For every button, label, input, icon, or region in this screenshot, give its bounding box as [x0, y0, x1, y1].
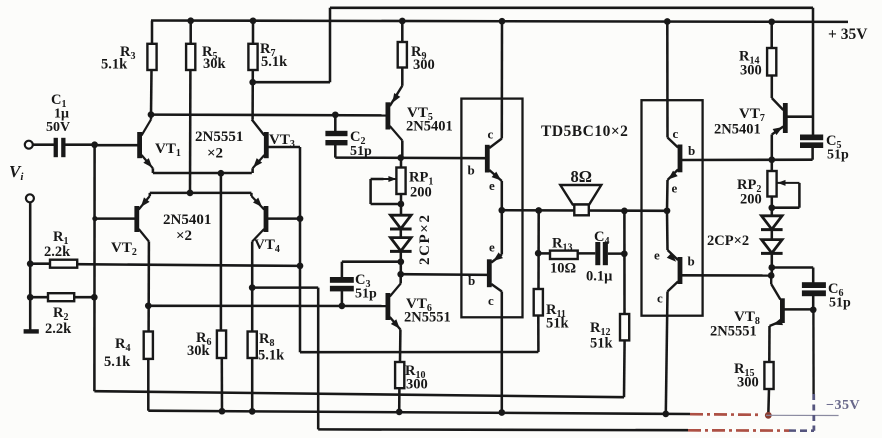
svg-text:51p: 51p	[829, 296, 851, 311]
svg-text:b: b	[688, 254, 695, 269]
svg-text:2.2k: 2.2k	[45, 321, 72, 337]
svg-text:2CP×2: 2CP×2	[707, 233, 749, 249]
svg-text:10Ω: 10Ω	[550, 261, 576, 277]
svg-text:TD5BC10×2: TD5BC10×2	[541, 123, 628, 140]
svg-text:2N5401: 2N5401	[163, 212, 211, 228]
svg-text:c: c	[673, 126, 679, 141]
svg-text:0.1μ: 0.1μ	[586, 269, 613, 285]
svg-text:300: 300	[740, 63, 762, 79]
svg-text:51k: 51k	[590, 336, 614, 352]
svg-text:51p: 51p	[355, 287, 377, 302]
svg-text:300: 300	[737, 375, 759, 391]
svg-text:51k: 51k	[546, 316, 570, 332]
svg-text:8Ω: 8Ω	[571, 167, 592, 186]
svg-text:e: e	[654, 248, 660, 263]
svg-text:200: 200	[410, 185, 432, 201]
svg-text:×2: ×2	[207, 146, 223, 162]
svg-text:2.2k: 2.2k	[44, 244, 71, 260]
svg-text:50V: 50V	[46, 120, 70, 135]
svg-text:51p: 51p	[827, 148, 849, 163]
svg-text:e: e	[672, 181, 678, 196]
svg-text:2N5551: 2N5551	[404, 310, 451, 326]
svg-text:e: e	[489, 240, 495, 255]
svg-text:51p: 51p	[350, 144, 372, 159]
svg-text:2N5401: 2N5401	[714, 122, 761, 138]
svg-text:b: b	[468, 273, 475, 288]
svg-text:−35V: −35V	[826, 398, 860, 413]
svg-text:5.1k: 5.1k	[258, 348, 285, 364]
svg-text:b: b	[468, 163, 475, 178]
svg-text:c: c	[488, 127, 494, 142]
svg-text:200: 200	[740, 192, 762, 208]
svg-text:2CP×2: 2CP×2	[417, 213, 433, 265]
svg-text:5.1k: 5.1k	[104, 354, 131, 370]
svg-text:+ 35V: + 35V	[828, 26, 868, 43]
svg-text:c: c	[488, 293, 494, 308]
svg-text:e: e	[489, 178, 495, 193]
svg-text:30k: 30k	[203, 56, 227, 72]
svg-text:2N5551: 2N5551	[710, 324, 757, 340]
svg-text:300: 300	[406, 377, 428, 393]
svg-text:300: 300	[413, 57, 435, 73]
svg-text:b: b	[688, 143, 695, 158]
svg-text:×2: ×2	[176, 228, 192, 244]
svg-text:2N5551: 2N5551	[195, 129, 243, 145]
svg-text:30k: 30k	[187, 343, 211, 359]
svg-text:5.1k: 5.1k	[101, 57, 128, 73]
svg-text:5.1k: 5.1k	[261, 54, 288, 70]
svg-text:2N5401: 2N5401	[406, 119, 453, 135]
svg-text:c: c	[657, 291, 663, 306]
